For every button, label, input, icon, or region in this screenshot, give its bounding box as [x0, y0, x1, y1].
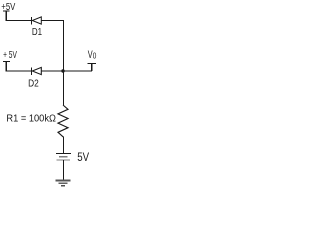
svg-text:5V: 5V	[77, 151, 90, 164]
svg-text:0: 0	[93, 50, 97, 60]
svg-text:D1: D1	[32, 26, 42, 37]
svg-text:+5V: +5V	[1, 1, 16, 12]
svg-text:D2: D2	[28, 78, 39, 90]
svg-text:+ 5V: + 5V	[3, 48, 17, 60]
svg-text:R1 = 100kΩ: R1 = 100kΩ	[6, 113, 56, 125]
